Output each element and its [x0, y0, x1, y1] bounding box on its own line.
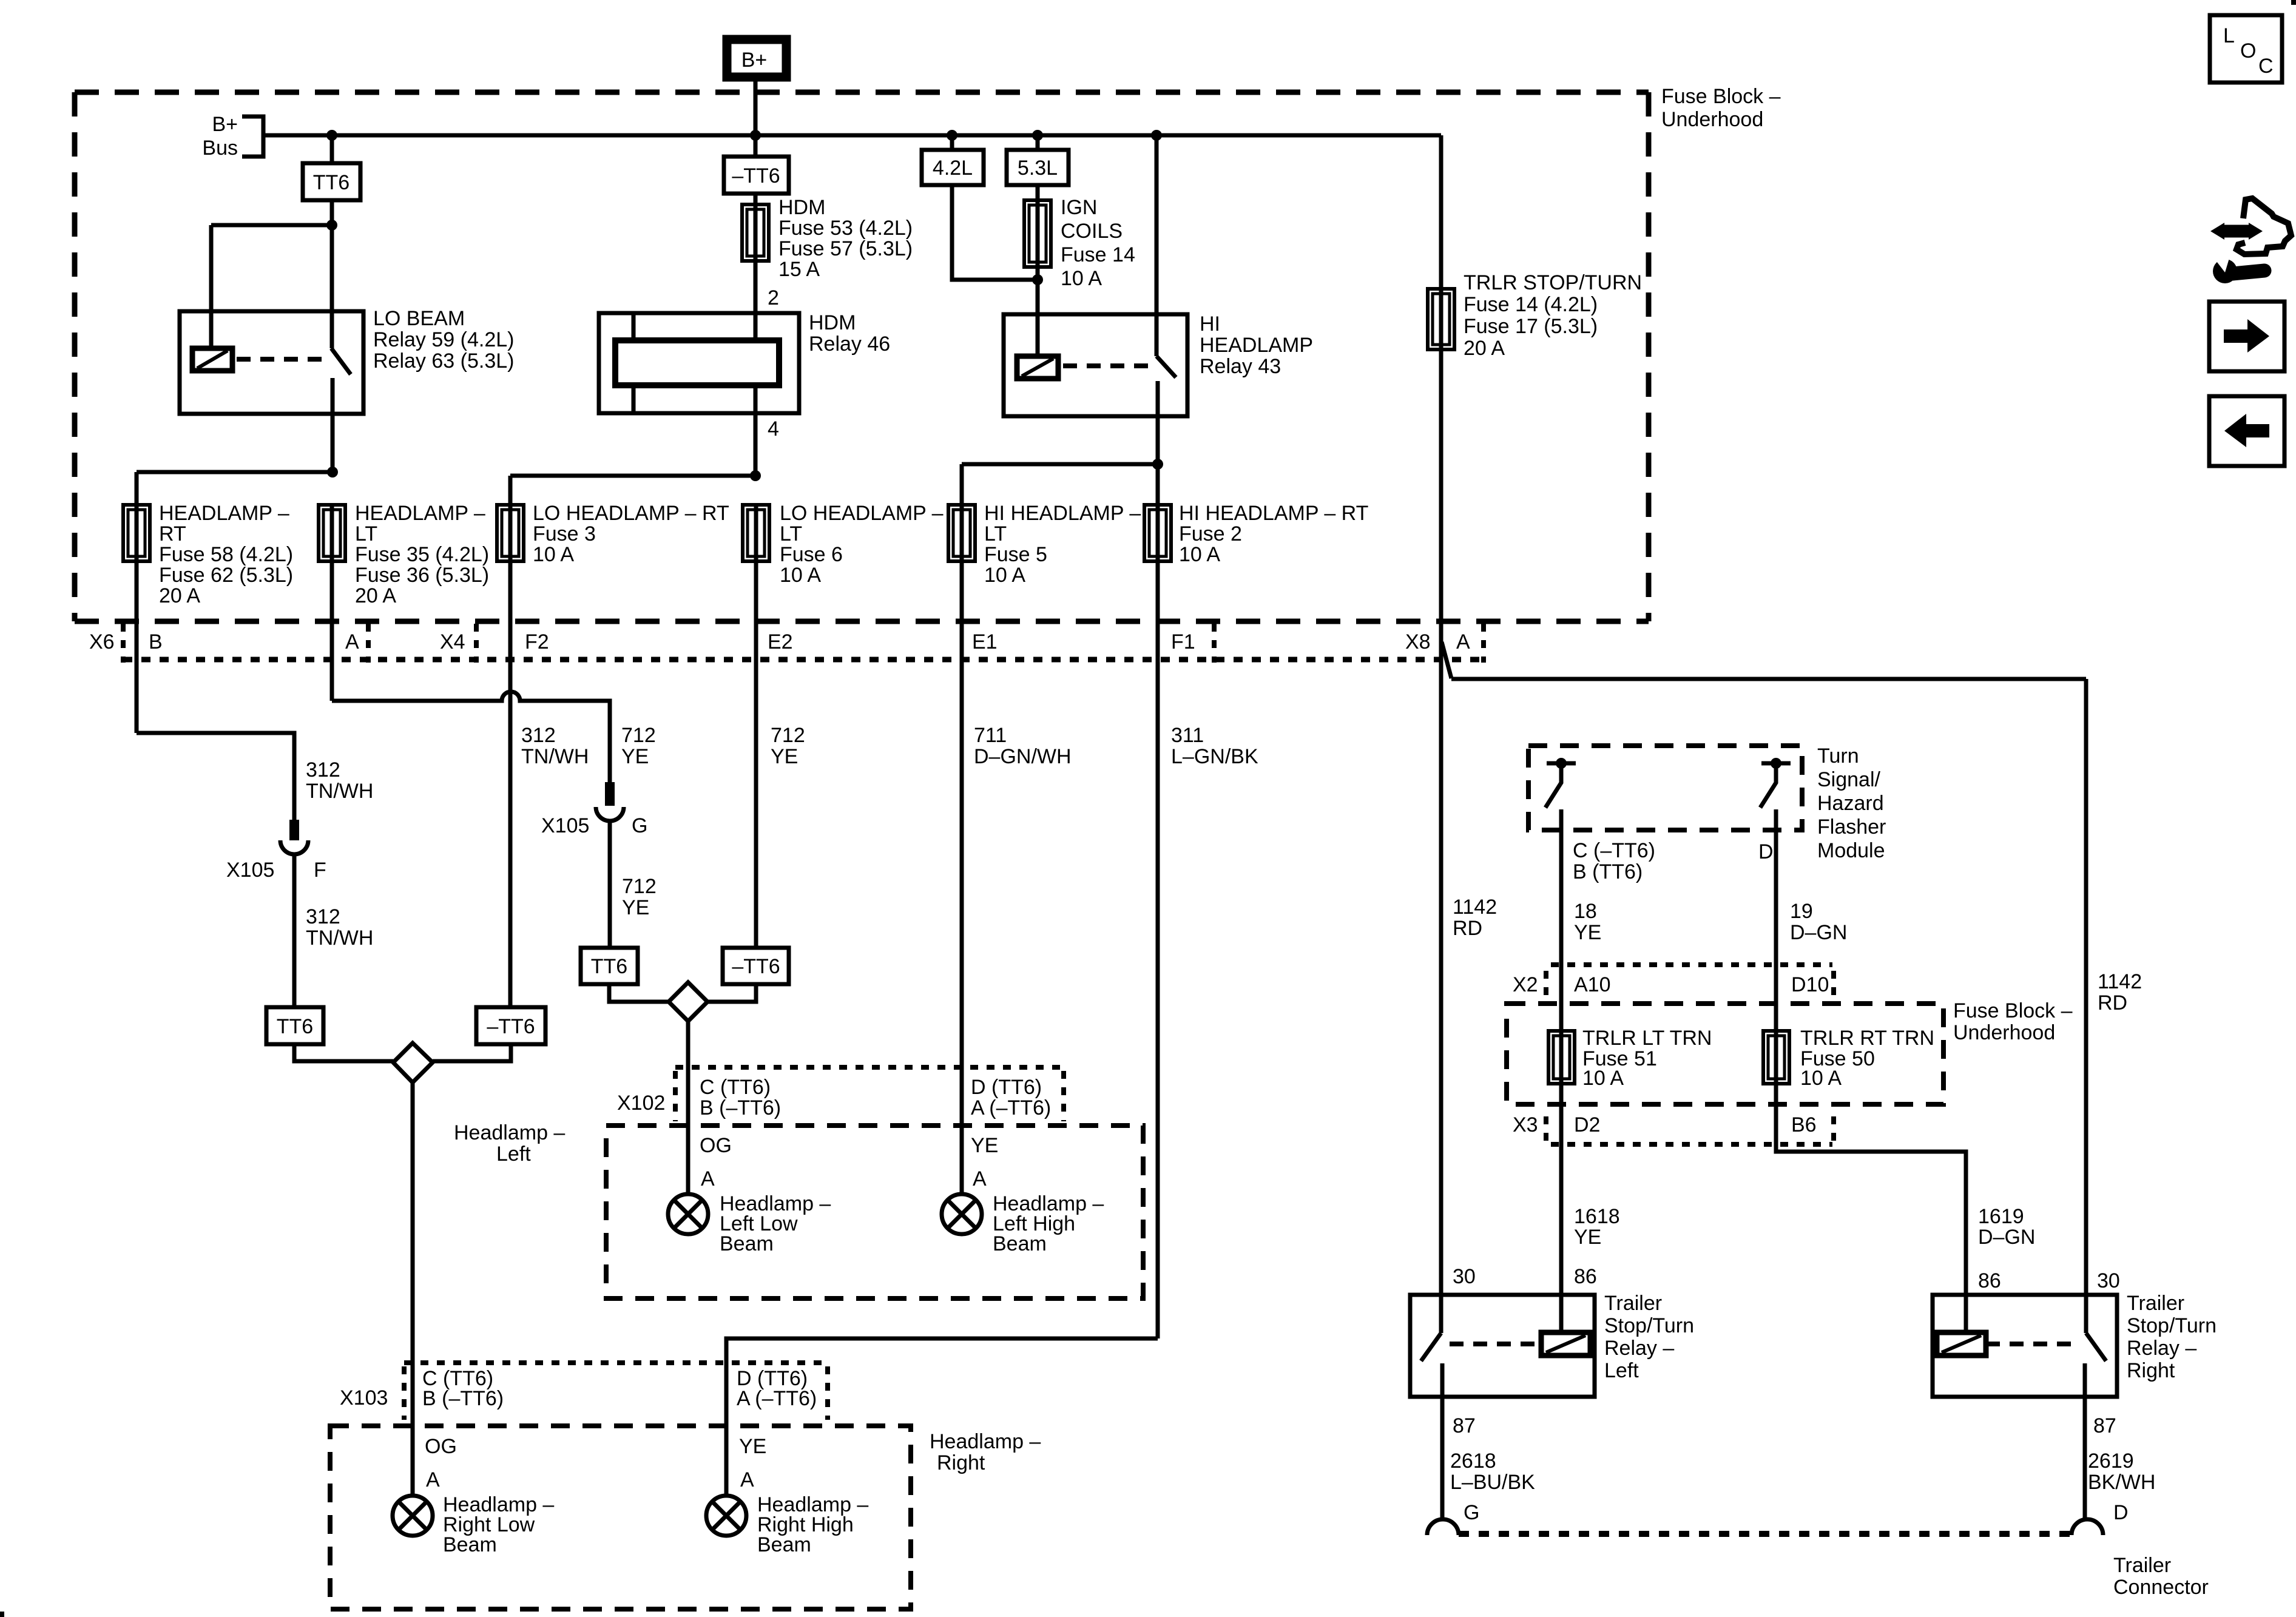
wire fuse 51 to relay 86	[1559, 1084, 1564, 1332]
label Headlamp - Left Low Beam	[720, 1192, 831, 1255]
fuse HEADLAMP-LT 35/36	[319, 505, 345, 561]
svg-text:Beam: Beam	[443, 1533, 497, 1556]
wire X105 F down	[292, 856, 297, 1007]
label Fuse Block - Underhood (right)	[1953, 999, 2073, 1044]
svg-text:D: D	[1758, 840, 1774, 863]
svg-text:Relay 43: Relay 43	[1200, 355, 1281, 378]
label Turn Signal/Hazard Flasher Module	[1817, 744, 1886, 862]
wire bus to TT6 box	[330, 135, 334, 163]
svg-text:X102: X102	[617, 1092, 665, 1115]
connector X3 dotted band	[1546, 1116, 1834, 1144]
svg-text:B+: B+	[741, 49, 768, 72]
wire F1 to right high lamp	[726, 1338, 1158, 1496]
label D (TT6) / A (-TT6) (X103)	[737, 1367, 817, 1410]
wire right relay 87 down	[2083, 1397, 2087, 1519]
svg-text:RD: RD	[1453, 917, 1482, 940]
svg-text:312: 312	[306, 905, 340, 928]
splice diamond (left headlamp)	[669, 982, 707, 1021]
svg-text:TT6: TT6	[277, 1015, 313, 1038]
-TT6 tag box (HDM column)	[724, 157, 789, 194]
wire X105 G down	[608, 821, 612, 948]
label Headlamp - Right High Beam	[757, 1493, 868, 1556]
svg-text:X3: X3	[1513, 1113, 1538, 1136]
svg-text:E2: E2	[768, 630, 793, 653]
svg-text:B: B	[149, 630, 163, 653]
svg-text:LO BEAM: LO BEAM	[373, 307, 465, 330]
label Trailer Stop/Turn Relay - Left	[1604, 1292, 1694, 1382]
wire B-pin jog to X105 F	[137, 733, 294, 820]
svg-text:X4: X4	[440, 630, 465, 653]
svg-text:312: 312	[306, 758, 340, 781]
label 1142 RD (left)	[1453, 896, 1497, 940]
svg-text:BK/WH: BK/WH	[2088, 1471, 2155, 1494]
svg-text:LT: LT	[780, 522, 802, 545]
svg-text:20 A: 20 A	[355, 584, 396, 607]
icon LOC box	[2210, 15, 2282, 83]
label LO BEAM Relay	[373, 307, 514, 373]
svg-text:Fuse 53 (4.2L): Fuse 53 (4.2L)	[778, 217, 913, 240]
svg-text:Underhood: Underhood	[1661, 108, 1763, 131]
svg-text:Bus: Bus	[202, 137, 238, 160]
svg-text:D10: D10	[1791, 973, 1829, 996]
label TRLR STOP/TURN fuse	[1464, 271, 1642, 360]
-TT6 tag box (E2 column)	[723, 948, 789, 984]
svg-text:Module: Module	[1817, 839, 1885, 862]
svg-text:TRLR STOP/TURN: TRLR STOP/TURN	[1464, 271, 1642, 294]
label 711 D-GN/WH (E1 column)	[974, 724, 1072, 768]
relay HI switch lower stub	[1156, 381, 1160, 464]
svg-text:Fuse 36 (5.3L): Fuse 36 (5.3L)	[355, 564, 489, 587]
svg-text:TRLR LT TRN: TRLR LT TRN	[1582, 1027, 1712, 1050]
svg-text:C: C	[2258, 55, 2274, 78]
svg-text:YE: YE	[771, 745, 798, 768]
label C (-TT6) / B (TT6)	[1573, 839, 1655, 883]
label 312 TN/WH (B column)	[306, 758, 373, 803]
lamp Headlamp Right High Beam	[706, 1496, 746, 1536]
lamp Headlamp Left High Beam	[942, 1194, 982, 1234]
svg-text:Stop/Turn: Stop/Turn	[1604, 1314, 1694, 1337]
module right switch	[1760, 758, 1791, 808]
svg-text:30: 30	[1453, 1265, 1476, 1288]
wire A-pin jog with hop over F2	[332, 692, 610, 782]
svg-text:YE: YE	[621, 745, 649, 768]
svg-text:HEADLAMP –: HEADLAMP –	[355, 502, 485, 525]
svg-text:LT: LT	[984, 522, 1007, 545]
svg-text:A: A	[345, 630, 359, 653]
svg-text:712: 712	[622, 875, 657, 898]
label Trailer Connector	[2113, 1554, 2209, 1599]
connector X105 F cup	[280, 840, 308, 854]
lamp Headlamp Left Low Beam	[668, 1194, 708, 1234]
svg-text:RD: RD	[2098, 991, 2127, 1014]
connector X105 G cup	[596, 807, 624, 821]
svg-text:HI: HI	[1200, 312, 1220, 336]
node below LO BEAM relay	[327, 467, 338, 478]
TT6 tag box (G column)	[581, 948, 638, 984]
TT6 tag box (left)	[303, 163, 360, 200]
svg-text:TN/WH: TN/WH	[521, 745, 589, 768]
label Headlamp - Right Low Beam	[443, 1493, 554, 1556]
svg-text:Fuse 6: Fuse 6	[780, 543, 843, 566]
node TT6 junction	[326, 220, 337, 231]
wire fuse 3 down column F2	[508, 561, 513, 1007]
relay HI coil-switch dashed link	[1063, 363, 1152, 368]
wire branch to Fuse 5	[962, 462, 1158, 467]
relay Trailer Stop/Turn Right box	[1933, 1295, 2117, 1397]
relay LO BEAM coil	[192, 348, 232, 371]
fuse HI HEADLAMP-LT Fuse 5	[948, 505, 975, 561]
svg-text:10 A: 10 A	[1179, 543, 1220, 566]
svg-text:TN/WH: TN/WH	[306, 780, 373, 803]
label 19 D-GN	[1790, 900, 1847, 944]
svg-text:2618: 2618	[1450, 1450, 1496, 1473]
svg-text:D–GN: D–GN	[1978, 1226, 2035, 1249]
svg-text:Fuse 3: Fuse 3	[533, 522, 596, 545]
svg-text:LT: LT	[355, 522, 377, 545]
svg-text:HI HEADLAMP –: HI HEADLAMP –	[984, 502, 1141, 525]
svg-text:YE: YE	[1574, 1226, 1601, 1249]
node bus/HI relay	[1151, 130, 1162, 141]
svg-text:Fuse 35 (4.2L): Fuse 35 (4.2L)	[355, 543, 489, 566]
label X105 G	[541, 814, 647, 837]
svg-text:Fuse Block –: Fuse Block –	[1661, 85, 1781, 108]
trailer connector dashed line	[1459, 1531, 2071, 1537]
connector separator X8 end	[1481, 624, 1486, 663]
svg-text:Right: Right	[937, 1451, 985, 1474]
4.2L tag box	[922, 150, 984, 185]
svg-text:TT6: TT6	[591, 955, 627, 978]
wire TT6 to mid diamond	[609, 984, 669, 1002]
svg-text:A10: A10	[1574, 973, 1611, 996]
-TT6 tag box (F2 column)	[476, 1007, 545, 1044]
svg-text:20 A: 20 A	[159, 584, 200, 607]
svg-text:YE: YE	[622, 896, 649, 919]
svg-text:E1: E1	[972, 630, 998, 653]
svg-text:TN/WH: TN/WH	[306, 927, 373, 950]
fuse HEADLAMP-RT 58/62	[123, 505, 150, 561]
label 2618 L-BU/BK	[1450, 1450, 1535, 1494]
label Fuse 5	[984, 502, 1141, 587]
left relay dashed link	[1450, 1342, 1541, 1346]
svg-text:YE: YE	[1574, 921, 1601, 944]
headlamp left dashed box	[606, 1126, 1143, 1298]
svg-text:1618: 1618	[1574, 1205, 1620, 1228]
label TRLR RT TRN fuse	[1800, 1027, 1934, 1090]
svg-text:B (TT6): B (TT6)	[1573, 860, 1643, 883]
wire TRLR fuse down to X8	[1439, 349, 1443, 1295]
node bus/5.3L	[1032, 130, 1043, 141]
label 1618 YE	[1574, 1205, 1620, 1249]
svg-text:X6: X6	[89, 630, 115, 653]
wire fuse LT to connector A	[330, 561, 334, 701]
right relay switch	[2085, 1295, 2106, 1397]
svg-text:B (–TT6): B (–TT6)	[700, 1096, 781, 1119]
wire HDM pin 4	[754, 385, 758, 476]
connector X2 dotted band	[1546, 965, 1834, 1000]
svg-text:A: A	[973, 1167, 987, 1190]
svg-text:A (–TT6): A (–TT6)	[971, 1096, 1051, 1119]
icon wrench/arrow	[2210, 198, 2291, 283]
svg-text:10 A: 10 A	[1582, 1067, 1624, 1090]
wire left relay 87 down	[1440, 1397, 1445, 1519]
svg-text:D (TT6): D (TT6)	[971, 1076, 1042, 1099]
right relay coil	[1937, 1332, 1986, 1355]
relay Trailer Stop/Turn Left box	[1410, 1295, 1595, 1397]
wire coil leg	[209, 225, 214, 349]
svg-text:LO HEADLAMP – RT: LO HEADLAMP – RT	[533, 502, 729, 525]
label TRLR LT TRN fuse	[1582, 1027, 1712, 1090]
svg-text:F1: F1	[1171, 630, 1195, 653]
svg-text:–TT6: –TT6	[732, 955, 780, 978]
svg-text:X8: X8	[1405, 630, 1431, 653]
wire 4.2L down and over	[952, 185, 1038, 280]
svg-text:Hazard: Hazard	[1817, 792, 1884, 815]
connector separator X6	[121, 624, 126, 663]
fuse TRLR RT TRN Fuse 50	[1763, 1031, 1789, 1084]
svg-text:20 A: 20 A	[1464, 337, 1505, 360]
svg-text:87: 87	[1453, 1414, 1476, 1437]
svg-text:Flasher: Flasher	[1817, 815, 1886, 839]
svg-text:Beam: Beam	[720, 1232, 774, 1255]
relay HI switch blade	[1156, 356, 1176, 377]
svg-text:TT6: TT6	[313, 171, 349, 194]
lamp Headlamp Right Low Beam	[393, 1496, 433, 1536]
wire bus to HI relay switch	[1155, 135, 1159, 356]
svg-text:F2: F2	[525, 630, 549, 653]
node bus/HDM	[750, 130, 761, 141]
svg-text:TRLR RT TRN: TRLR RT TRN	[1800, 1027, 1934, 1050]
label Fuse 2	[1179, 502, 1368, 566]
node bus/TT6	[326, 130, 337, 141]
svg-text:19: 19	[1790, 900, 1813, 923]
svg-text:C (–TT6): C (–TT6)	[1573, 839, 1655, 862]
wire 4.2L leg	[950, 135, 954, 150]
svg-text:RT: RT	[159, 522, 186, 545]
label Trailer Stop/Turn Relay - Right	[2127, 1292, 2217, 1382]
svg-text:L–BU/BK: L–BU/BK	[1450, 1471, 1535, 1494]
svg-text:5.3L: 5.3L	[1018, 157, 1058, 180]
svg-text:HDM: HDM	[778, 196, 825, 219]
svg-text:4.2L: 4.2L	[933, 157, 973, 180]
svg-text:312: 312	[521, 724, 556, 747]
svg-text:O: O	[2240, 39, 2256, 62]
svg-text:Fuse 62 (5.3L): Fuse 62 (5.3L)	[159, 564, 293, 587]
fuse block underhood dashed box (trailer fuses)	[1507, 1004, 1943, 1104]
svg-text:HEADLAMP –: HEADLAMP –	[159, 502, 289, 525]
label Headlamp - Left High Beam	[993, 1192, 1104, 1255]
svg-text:86: 86	[1574, 1265, 1597, 1288]
relay LO BEAM box	[180, 311, 363, 414]
svg-text:10 A: 10 A	[1061, 267, 1102, 290]
fuse IGN COILS Fuse 14	[1024, 200, 1051, 267]
svg-text:86: 86	[1978, 1269, 2001, 1292]
svg-text:L: L	[2223, 24, 2235, 47]
svg-text:Fuse 14 (4.2L): Fuse 14 (4.2L)	[1464, 293, 1598, 316]
label Headlamp - Right	[930, 1430, 1041, 1474]
svg-text:Headlamp –: Headlamp –	[930, 1430, 1041, 1453]
svg-text:15 A: 15 A	[778, 258, 820, 281]
wire B+ bus	[263, 133, 1441, 138]
svg-text:1619: 1619	[1978, 1205, 2024, 1228]
node below HDM	[750, 470, 761, 481]
svg-text:1142: 1142	[1453, 896, 1497, 919]
connector X102 dotted band	[675, 1067, 1064, 1121]
wire diamond to right low lamp	[411, 1082, 415, 1496]
svg-text:OG: OG	[425, 1435, 457, 1458]
label HDM Relay 46	[809, 311, 890, 356]
B+ terminal box	[727, 39, 786, 77]
svg-text:D–GN: D–GN	[1790, 921, 1847, 944]
fuse TRLR STOP/TURN	[1428, 289, 1454, 349]
svg-text:Fuse 14: Fuse 14	[1061, 243, 1135, 266]
wire 5.3L leg	[1036, 135, 1040, 150]
wire fuse to HDM relay pin 2	[754, 261, 758, 340]
relay HI coil	[1017, 356, 1058, 379]
svg-text:IGN: IGN	[1061, 196, 1097, 219]
wire switch leg	[330, 225, 334, 348]
svg-text:Fuse 5: Fuse 5	[984, 543, 1047, 566]
svg-text:712: 712	[621, 724, 656, 747]
svg-text:YE: YE	[739, 1435, 766, 1458]
svg-text:F: F	[314, 859, 326, 882]
node below HI relay	[1152, 459, 1163, 470]
TT6 tag box (lower left)	[266, 1007, 323, 1044]
svg-text:87: 87	[2093, 1414, 2116, 1437]
svg-text:D2: D2	[1574, 1113, 1600, 1136]
fuse HI HEADLAMP-RT Fuse 2	[1144, 505, 1171, 561]
5.3L tag box	[1007, 150, 1069, 185]
headlamp right dashed box	[330, 1426, 911, 1609]
relay HI HEADLAMP 43 box	[1004, 314, 1187, 416]
page artifact top right	[2291, 0, 2296, 5]
label Fuse 6	[780, 502, 944, 587]
svg-text:YE: YE	[971, 1134, 998, 1157]
svg-text:10 A: 10 A	[984, 564, 1025, 587]
relay LO BEAM switch blade	[331, 348, 351, 374]
relay LO BEAM coil-switch dashed link	[237, 357, 328, 362]
svg-text:Trailer: Trailer	[1604, 1292, 1662, 1315]
svg-text:Beam: Beam	[757, 1533, 811, 1556]
svg-text:HI HEADLAMP – RT: HI HEADLAMP – RT	[1179, 502, 1368, 525]
page artifact bottom left	[0, 1612, 4, 1617]
svg-text:A: A	[426, 1468, 440, 1491]
left relay switch	[1421, 1295, 1442, 1397]
wire diamond to left low lamp	[686, 1021, 690, 1194]
label Fuse Block - Underhood (top right)	[1661, 85, 1781, 131]
svg-text:311: 311	[1171, 724, 1204, 747]
fuse HDM Fuse 53/57	[742, 204, 769, 261]
svg-text:Fuse 2: Fuse 2	[1179, 522, 1242, 545]
svg-text:Left: Left	[496, 1143, 531, 1166]
wire X8 branch diagonal	[1442, 642, 1451, 678]
right relay dashed link	[1986, 1342, 2078, 1346]
icon arrow right box	[2209, 302, 2284, 371]
wire TT6 to lower diamond	[294, 1044, 393, 1061]
wire B+ box to bus	[754, 77, 758, 135]
svg-text:Headlamp –: Headlamp –	[454, 1121, 565, 1144]
relay HDM 46 module symbol	[599, 313, 799, 413]
B+ Bus bracket	[202, 113, 263, 160]
svg-text:30: 30	[2097, 1269, 2120, 1292]
label HEADLAMP-RT fuse	[159, 502, 293, 607]
wire branch to Fuse 3	[510, 474, 755, 478]
wire TT6 to junction	[330, 200, 334, 225]
svg-text:X103: X103	[340, 1386, 388, 1409]
svg-text:A: A	[740, 1468, 754, 1491]
fuse LO HEADLAMP-RT Fuse 3	[497, 505, 524, 561]
svg-text:X2: X2	[1513, 973, 1538, 996]
wire fuse 5 down column E1	[960, 561, 964, 1194]
label IGN COILS fuse	[1061, 196, 1135, 290]
icon arrow left box	[2209, 396, 2284, 466]
svg-text:Right: Right	[2127, 1359, 2175, 1382]
svg-text:OG: OG	[700, 1134, 732, 1157]
svg-text:A (–TT6): A (–TT6)	[737, 1387, 817, 1410]
svg-text:10 A: 10 A	[780, 564, 821, 587]
wire branch to coil side	[211, 223, 332, 228]
wire 5.3L to IGN fuse	[1036, 185, 1040, 200]
svg-text:–TT6: –TT6	[487, 1015, 535, 1038]
svg-text:Fuse 17 (5.3L): Fuse 17 (5.3L)	[1464, 315, 1598, 338]
svg-text:712: 712	[771, 724, 805, 747]
svg-text:A: A	[701, 1167, 715, 1190]
svg-text:HDM: HDM	[809, 311, 856, 334]
label Headlamp - Left	[454, 1121, 565, 1166]
label 311 L-GN/BK (F1 column)	[1171, 724, 1258, 768]
splice diamond (right headlamp)	[393, 1043, 433, 1082]
connector X103 dotted band	[404, 1363, 828, 1420]
svg-text:Stop/Turn: Stop/Turn	[2127, 1314, 2217, 1337]
svg-text:Signal/: Signal/	[1817, 768, 1881, 791]
label HDM fuse	[778, 196, 913, 281]
label 312 TN/WH (F2 column)	[521, 724, 589, 768]
fuse TRLR LT TRN Fuse 51	[1548, 1031, 1575, 1084]
svg-text:Relay 46: Relay 46	[809, 333, 890, 356]
label Fuse 3	[533, 502, 729, 566]
svg-text:10 A: 10 A	[533, 543, 574, 566]
svg-text:Left: Left	[1604, 1359, 1639, 1382]
svg-text:G: G	[1464, 1501, 1479, 1524]
svg-text:2: 2	[768, 286, 779, 309]
svg-text:Turn: Turn	[1817, 744, 1859, 768]
node bus/4.2L	[947, 130, 957, 141]
svg-text:C (TT6): C (TT6)	[700, 1076, 771, 1099]
trailer connector left cup	[1427, 1519, 1459, 1535]
wire -TT6 to mid diamond	[707, 984, 756, 1002]
label 712 YE (A column)	[621, 724, 656, 768]
relay LO BEAM switch lower stub	[331, 378, 335, 472]
svg-text:B (–TT6): B (–TT6)	[422, 1387, 504, 1410]
svg-text:Beam: Beam	[993, 1232, 1047, 1255]
module left switch	[1545, 758, 1576, 808]
turn signal module dashed box	[1528, 746, 1802, 830]
connector row bottom dotted line	[123, 657, 1484, 663]
svg-text:X105: X105	[541, 814, 589, 837]
svg-text:D–GN/WH: D–GN/WH	[974, 745, 1072, 768]
svg-text:Fuse Block –: Fuse Block –	[1953, 999, 2073, 1022]
wire to Fuse 2	[1156, 464, 1160, 505]
wire fuse RT to connector B	[135, 561, 139, 733]
svg-text:Underhood: Underhood	[1953, 1021, 2055, 1044]
svg-text:2619: 2619	[2088, 1450, 2134, 1473]
svg-text:18: 18	[1574, 900, 1597, 923]
trailer connector right cup	[2071, 1519, 2103, 1535]
svg-text:B6: B6	[1791, 1113, 1817, 1136]
svg-text:10 A: 10 A	[1800, 1067, 1842, 1090]
svg-text:Relay 63 (5.3L): Relay 63 (5.3L)	[373, 349, 514, 373]
svg-text:Relay –: Relay –	[2127, 1337, 2196, 1360]
svg-text:HEADLAMP: HEADLAMP	[1200, 334, 1313, 357]
